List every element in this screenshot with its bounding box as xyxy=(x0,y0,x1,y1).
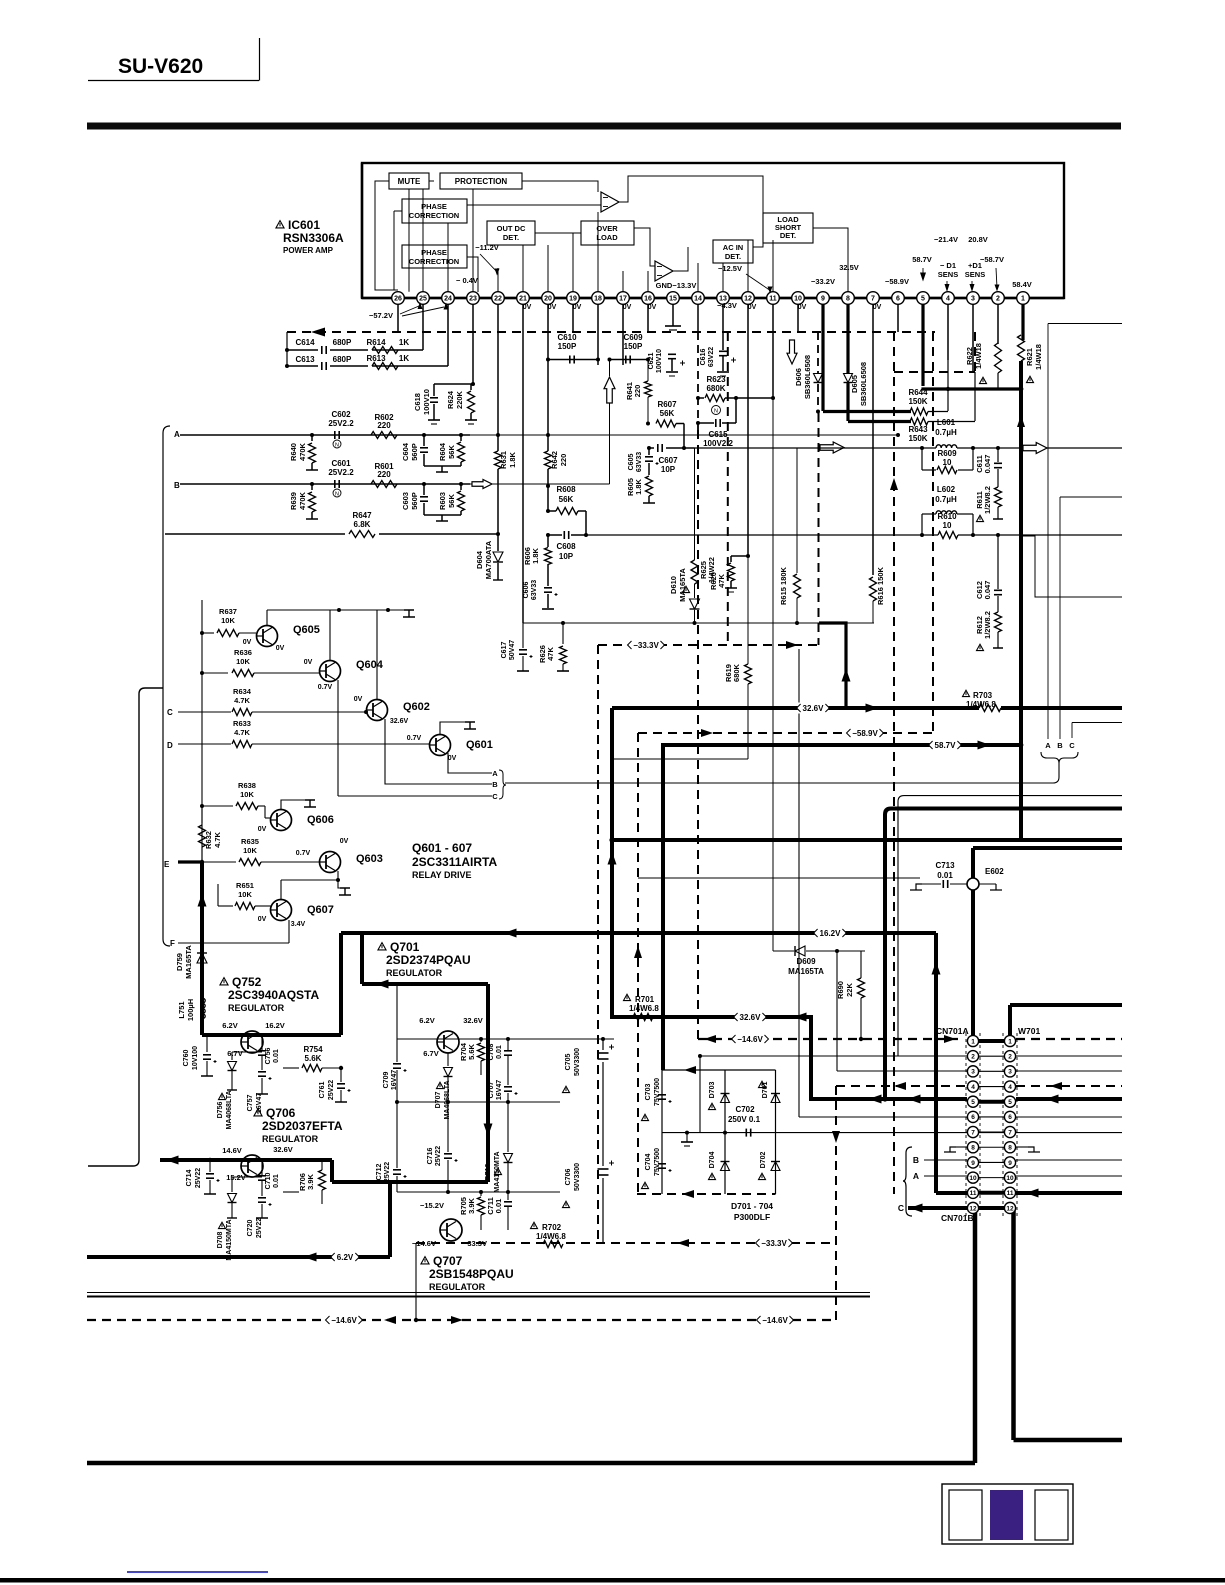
diode D701 xyxy=(771,1094,780,1103)
IC601 pin row xyxy=(362,297,1064,299)
svg-text:4.7K: 4.7K xyxy=(234,728,250,737)
bridge mid rail row7 xyxy=(662,1132,776,1134)
connector CN701A pin 4 xyxy=(967,1081,978,1092)
resistor R702 xyxy=(531,1222,538,1228)
svg-text:560P: 560P xyxy=(410,492,419,510)
wire pin13 drop xyxy=(722,304,724,332)
svg-text:1: 1 xyxy=(1008,1038,1012,1045)
footer bottom bar xyxy=(0,1578,1225,1583)
bridge top rail xyxy=(662,1069,776,1071)
svg-text:75V7500: 75V7500 xyxy=(654,1078,661,1106)
svg-text:R632: R632 xyxy=(204,831,213,849)
svg-text:C606: C606 xyxy=(523,582,530,599)
svg-text:220K: 220K xyxy=(455,390,464,409)
svg-text:C: C xyxy=(167,708,173,717)
svg-text:L601: L601 xyxy=(937,418,956,427)
Q707 drop to -14.6V rail xyxy=(415,1243,417,1320)
svg-text:220: 220 xyxy=(633,385,642,398)
node D row xyxy=(178,743,231,745)
wire step x1035 xyxy=(1021,536,1122,597)
svg-text:8: 8 xyxy=(846,296,850,303)
svg-text:C621: C621 xyxy=(648,353,655,370)
capacitor C716 xyxy=(447,1102,449,1152)
svg-text:1.8K: 1.8K xyxy=(531,547,540,563)
svg-text:D610: D610 xyxy=(669,576,678,594)
connector CN701A pin 12 xyxy=(967,1202,978,1213)
capacitor C617 xyxy=(522,623,524,648)
svg-text:−33.2V: −33.2V xyxy=(811,277,835,286)
svg-text:2SC3940AQSTA: 2SC3940AQSTA xyxy=(228,988,319,1002)
svg-text:1.8K: 1.8K xyxy=(508,451,517,467)
svg-text:1/2W8.2: 1/2W8.2 xyxy=(983,486,992,514)
svg-text:0V: 0V xyxy=(573,304,582,311)
dashed bus y332 xyxy=(287,331,935,333)
svg-text:150K: 150K xyxy=(908,397,927,406)
svg-text:MA4150MTA: MA4150MTA xyxy=(494,1151,501,1192)
thick row5 y1099 xyxy=(811,1097,967,1101)
thick y1182 xyxy=(332,1180,488,1184)
resistor R616 xyxy=(870,577,877,601)
svg-text:B: B xyxy=(1057,741,1063,750)
svg-text:C607: C607 xyxy=(658,456,678,465)
connector CN701A pin 11 xyxy=(967,1187,978,1198)
mid row y1102 xyxy=(397,1101,560,1103)
svg-text:R614: R614 xyxy=(366,338,386,347)
svg-text:1: 1 xyxy=(971,1038,975,1045)
svg-text:C708: C708 xyxy=(488,1044,495,1061)
connector W701 pin 12 xyxy=(1004,1202,1015,1213)
svg-text:1/4W18: 1/4W18 xyxy=(1034,344,1043,370)
svg-text:SENS: SENS xyxy=(938,270,958,279)
IC601 label xyxy=(276,221,284,228)
wire pin25 drop xyxy=(422,304,424,350)
svg-text:22: 22 xyxy=(494,296,502,303)
svg-text:25V22: 25V22 xyxy=(435,1146,442,1166)
connector W701 pin 3 xyxy=(1004,1066,1015,1077)
svg-text:C610: C610 xyxy=(557,333,577,342)
svg-text:56K: 56K xyxy=(447,494,456,508)
dashed -14.6V row1 y1039 xyxy=(698,1038,958,1040)
PROTECTION block xyxy=(440,173,522,189)
svg-text:R633: R633 xyxy=(233,719,251,728)
IC601 pin 2 xyxy=(992,292,1005,305)
voltage flags xyxy=(798,703,829,714)
svg-text:POWER AMP: POWER AMP xyxy=(283,246,334,255)
svg-text:C761: C761 xyxy=(319,1082,326,1099)
svg-text:C716: C716 xyxy=(427,1148,434,1165)
footer colour swatch box xyxy=(942,1484,1073,1544)
IC601 pin 15 xyxy=(667,292,680,305)
thick corner x885 y808 xyxy=(885,809,1122,1098)
thick pin9 drop xyxy=(821,304,824,411)
svg-text:16: 16 xyxy=(644,296,652,303)
svg-text:−12.5V: −12.5V xyxy=(718,264,742,273)
wire pin19 drop xyxy=(572,304,574,332)
svg-text:C707: C707 xyxy=(488,1082,495,1099)
svg-text:C703: C703 xyxy=(645,1084,652,1101)
capacitor C614 xyxy=(287,349,318,351)
svg-text:D701 - 704: D701 - 704 xyxy=(731,1201,773,1211)
svg-text:680P: 680P xyxy=(333,338,352,347)
svg-text:6.7V: 6.7V xyxy=(227,1049,242,1058)
IC601 pin 8 xyxy=(842,292,855,305)
svg-text:MA165TA: MA165TA xyxy=(788,967,824,976)
thick Q706 row y1160 xyxy=(160,1158,332,1162)
svg-text:47K: 47K xyxy=(546,647,555,661)
svg-text:150P: 150P xyxy=(558,342,577,351)
svg-text:B: B xyxy=(174,481,180,490)
transistor Q601 xyxy=(430,735,451,756)
svg-text:680K: 680K xyxy=(706,384,725,393)
header vertical rule xyxy=(259,38,261,81)
resistor R613 xyxy=(372,363,398,370)
wire pin4 to R644 xyxy=(947,360,949,411)
svg-text:R622: R622 xyxy=(965,347,974,365)
resistor R611 xyxy=(995,487,1002,507)
svg-text:E602: E602 xyxy=(985,867,1004,876)
bridge legs xyxy=(661,1070,663,1194)
svg-text:D703: D703 xyxy=(709,1082,716,1099)
svg-text:DET.: DET. xyxy=(725,252,741,261)
svg-text:21: 21 xyxy=(519,296,527,303)
svg-text:220: 220 xyxy=(377,421,391,430)
top separator bar xyxy=(87,123,1121,130)
svg-text:5: 5 xyxy=(971,1099,975,1106)
svg-text:D: D xyxy=(167,741,173,750)
relay outputs A B C xyxy=(448,753,492,773)
resistor R619 xyxy=(747,556,749,664)
svg-text:0V: 0V xyxy=(258,826,267,833)
svg-text:REGULATOR: REGULATOR xyxy=(386,968,443,978)
connector W701 pin 11 xyxy=(1004,1187,1015,1198)
svg-text:E: E xyxy=(164,860,170,869)
svg-text:5.6K: 5.6K xyxy=(305,1054,322,1063)
diode D702 xyxy=(771,1162,780,1171)
wire pin10 drop xyxy=(797,304,799,332)
svg-text:25V2.2: 25V2.2 xyxy=(328,468,354,477)
svg-text:14.6V: 14.6V xyxy=(222,1146,242,1155)
svg-text:32.6V: 32.6V xyxy=(463,1016,483,1025)
svg-text:25V22: 25V22 xyxy=(328,1080,335,1100)
resistor R651 xyxy=(218,905,233,907)
transistor Q605 xyxy=(257,626,278,647)
dashed vertical x933 xyxy=(932,332,934,733)
svg-text:16V47: 16V47 xyxy=(391,1070,398,1090)
thick x202 E-line xyxy=(200,862,204,1035)
right net B horiz xyxy=(1060,496,1122,498)
svg-text:9: 9 xyxy=(971,1160,975,1167)
resistor R622 xyxy=(995,343,1002,373)
capacitor C611 xyxy=(997,448,999,462)
thick 6.2V y1257 xyxy=(87,1255,390,1259)
svg-text:12: 12 xyxy=(969,1205,977,1212)
svg-text:16.2V: 16.2V xyxy=(265,1021,285,1030)
wire pin21 drop xyxy=(522,304,524,623)
capacitor C616 electrolytic xyxy=(722,332,724,350)
connector W701 pin 8 xyxy=(1004,1142,1015,1153)
svg-text:10K: 10K xyxy=(243,846,257,855)
svg-text:C704: C704 xyxy=(645,1154,652,1171)
svg-text:R754: R754 xyxy=(303,1045,323,1054)
Q706 labels xyxy=(254,1109,262,1116)
svg-text:C608: C608 xyxy=(556,542,576,551)
svg-text:10K: 10K xyxy=(240,790,254,799)
svg-text:D759: D759 xyxy=(175,953,184,971)
svg-text:0V: 0V xyxy=(448,755,457,762)
header underline xyxy=(88,80,259,82)
svg-text:Q752: Q752 xyxy=(232,975,262,989)
thick y389 rail xyxy=(921,387,1021,390)
Q707 labels xyxy=(421,1257,429,1264)
double rails y1292.5 y1296.5 xyxy=(87,1292,870,1294)
IC601 pin 25 xyxy=(417,292,430,305)
wire pin6 drop xyxy=(897,304,899,332)
svg-text:D605: D605 xyxy=(850,375,859,393)
svg-text:9: 9 xyxy=(1008,1160,1012,1167)
pin15 ground stub xyxy=(672,304,674,326)
resistor R643 xyxy=(848,420,911,423)
ABC stem to y783 xyxy=(505,763,1059,783)
svg-text:56K: 56K xyxy=(559,495,574,504)
svg-text:0.7µH: 0.7µH xyxy=(935,495,957,504)
resistor R704 xyxy=(480,1039,482,1042)
AC IN DET block xyxy=(713,240,753,263)
ground under R624 xyxy=(465,419,477,421)
resistor R625 xyxy=(694,448,696,560)
svg-text:DET.: DET. xyxy=(503,233,519,242)
wire pin26 drop xyxy=(397,304,399,332)
diode D707 xyxy=(447,1053,449,1066)
svg-text:B: B xyxy=(913,1155,919,1165)
diode D759 xyxy=(197,953,207,963)
svg-text:−4.3V: −4.3V xyxy=(717,301,737,310)
svg-text:REGULATOR: REGULATOR xyxy=(262,1134,319,1144)
resistor R602 xyxy=(371,432,397,439)
svg-text:6.7V: 6.7V xyxy=(423,1049,438,1058)
svg-text:MA165TA: MA165TA xyxy=(678,568,687,602)
svg-text:25V22: 25V22 xyxy=(384,1162,391,1182)
svg-text:C705: C705 xyxy=(565,1054,572,1071)
diode D704 xyxy=(721,1162,730,1171)
svg-text:250V 0.1: 250V 0.1 xyxy=(728,1115,761,1124)
svg-text:C613: C613 xyxy=(295,355,315,364)
svg-text:100V10: 100V10 xyxy=(422,389,431,415)
diode D605 on pin8 drop xyxy=(844,374,853,383)
svg-text:−14.6V: −14.6V xyxy=(331,1316,357,1325)
svg-text:C615: C615 xyxy=(708,430,728,439)
IC601 pin 17 xyxy=(617,292,630,305)
diode D710 xyxy=(507,1102,509,1152)
connector W701 pin 6 xyxy=(1004,1111,1015,1122)
resistor R706 xyxy=(283,1191,299,1193)
resistor R614 xyxy=(372,347,398,354)
connector CN701A pin 2 xyxy=(967,1051,978,1062)
row6 y1117 xyxy=(799,1116,967,1118)
svg-text:10V100: 10V100 xyxy=(192,1046,199,1070)
svg-text:75V7500: 75V7500 xyxy=(654,1148,661,1176)
resistor R705 xyxy=(480,1192,482,1196)
svg-text:C618: C618 xyxy=(413,393,422,411)
ground at bridge xyxy=(685,1131,689,1135)
connector CN701A pin 9 xyxy=(967,1157,978,1168)
resistor R636 xyxy=(202,672,228,674)
svg-text:16V47: 16V47 xyxy=(496,1080,503,1100)
wire pin2 drop xyxy=(997,304,999,344)
resistor R621 on pin1 bus xyxy=(1018,335,1025,361)
capacitor C607 xyxy=(657,444,659,452)
resistor R637 xyxy=(202,632,214,634)
svg-text:C605: C605 xyxy=(628,454,635,471)
capacitor C610 xyxy=(548,359,598,361)
capacitor C720 xyxy=(258,1197,266,1199)
svg-text:220: 220 xyxy=(377,470,391,479)
svg-text:0V: 0V xyxy=(354,696,363,703)
left bracket A-F xyxy=(163,426,170,946)
capacitor C606 electrolytic xyxy=(544,587,552,589)
IC601 pin 16 xyxy=(642,292,655,305)
wire main vertical x202 xyxy=(201,600,203,862)
thick rail x612 xyxy=(610,708,614,1017)
svg-text:6: 6 xyxy=(971,1114,975,1121)
thick branch x846 xyxy=(819,623,846,707)
svg-text:AC IN: AC IN xyxy=(723,243,743,252)
wire pin9 drop xyxy=(822,304,824,332)
svg-text:− 0.4V: − 0.4V xyxy=(456,276,478,285)
connector W701 pin 1 xyxy=(1004,1035,1015,1046)
right net B vertical xyxy=(1059,497,1061,739)
svg-text:CORRECTION: CORRECTION xyxy=(409,257,459,266)
open arrow on row B xyxy=(472,480,492,489)
svg-text:D606: D606 xyxy=(794,368,803,386)
svg-text:0.01: 0.01 xyxy=(496,1045,503,1059)
svg-text:−58.9V: −58.9V xyxy=(885,277,909,286)
svg-text:25V22: 25V22 xyxy=(195,1168,202,1188)
thick x936 xyxy=(934,933,938,1193)
svg-text:SU-V620: SU-V620 xyxy=(118,55,203,78)
connector W701 pin 2 xyxy=(1004,1051,1015,1062)
svg-text:R640: R640 xyxy=(289,443,298,461)
thick x488 xyxy=(486,984,490,1182)
svg-text:0.01: 0.01 xyxy=(494,1199,503,1214)
svg-text:0V: 0V xyxy=(748,304,757,311)
svg-text:C757: C757 xyxy=(247,1095,254,1112)
dashed box sense xyxy=(894,371,975,373)
diode D606 on dashed xyxy=(817,332,819,373)
solid arrow up on pin1 bus xyxy=(1017,415,1025,427)
svg-text:9: 9 xyxy=(821,296,825,303)
capacitor C760 xyxy=(206,1035,208,1052)
wire row A to x898 xyxy=(896,433,900,437)
svg-text:REGULATOR: REGULATOR xyxy=(429,1282,486,1292)
right net C horiz xyxy=(1072,722,1122,724)
svg-text:C756: C756 xyxy=(265,1048,272,1065)
svg-text:0.7V: 0.7V xyxy=(296,850,311,857)
svg-text:2: 2 xyxy=(1008,1054,1012,1061)
transistor Q603 xyxy=(320,852,341,873)
svg-text:D707: D707 xyxy=(435,1092,442,1109)
svg-text:1: 1 xyxy=(1021,296,1025,303)
IC601 pin 7 xyxy=(867,292,880,305)
transistor Q607 xyxy=(271,900,292,921)
svg-text:50V47: 50V47 xyxy=(509,640,516,660)
svg-text:0V: 0V xyxy=(276,645,285,652)
svg-text:−33.3V: −33.3V xyxy=(633,641,659,650)
svg-text:0V: 0V xyxy=(798,304,807,311)
capacitor C612 xyxy=(997,535,999,589)
svg-text:20.8V: 20.8V xyxy=(968,235,988,244)
node C row xyxy=(178,711,231,713)
svg-text:150K: 150K xyxy=(908,434,927,443)
svg-text:10P: 10P xyxy=(559,552,574,561)
svg-text:DET.: DET. xyxy=(780,231,796,240)
svg-text:R635: R635 xyxy=(241,837,259,846)
capacitor C604 xyxy=(422,433,426,437)
svg-text:R624: R624 xyxy=(446,390,455,409)
Q601 collector ground xyxy=(440,722,470,735)
svg-text:0V: 0V xyxy=(340,838,349,845)
PHASE CORRECTION block 1 xyxy=(402,199,467,223)
svg-text:6.8K: 6.8K xyxy=(354,520,371,529)
capacitor C710 xyxy=(261,1160,263,1175)
resistor R615 xyxy=(796,448,798,573)
wire row A right xyxy=(470,434,898,436)
thick pin8 drop with D605 xyxy=(846,304,849,373)
svg-text:MA4150MTA: MA4150MTA xyxy=(226,1219,233,1260)
svg-text:2: 2 xyxy=(996,296,1000,303)
svg-text:5.6K: 5.6K xyxy=(467,1043,476,1059)
dashed x698 xyxy=(697,430,699,1039)
CN701B brace xyxy=(903,1147,912,1216)
resistor R638 xyxy=(202,805,233,807)
svg-text:150P: 150P xyxy=(624,342,643,351)
svg-text:56K: 56K xyxy=(447,445,456,459)
svg-text:2SC3311AIRTA: 2SC3311AIRTA xyxy=(412,855,497,869)
svg-text:23: 23 xyxy=(469,296,477,303)
svg-text:R644: R644 xyxy=(908,388,928,397)
connector CN701A pin 1 xyxy=(967,1035,978,1046)
svg-text:R703: R703 xyxy=(973,691,993,700)
svg-text:A: A xyxy=(1045,741,1051,750)
IC601 pin 20 xyxy=(542,292,555,305)
svg-text:R608: R608 xyxy=(556,485,576,494)
svg-text:R609: R609 xyxy=(937,449,957,458)
svg-text:50V3300: 50V3300 xyxy=(574,1163,581,1191)
thick x341 xyxy=(339,933,343,1035)
svg-text:−58.9V: −58.9V xyxy=(852,729,878,738)
dashed x598 xyxy=(597,645,599,1243)
footer blue underline xyxy=(127,1571,268,1573)
thin y878 xyxy=(638,877,920,879)
svg-text:6: 6 xyxy=(1008,1114,1012,1121)
resistor R641 xyxy=(647,360,649,382)
svg-text:MUTE: MUTE xyxy=(398,177,421,186)
wire pin18 drop xyxy=(597,304,599,365)
resistor R607 xyxy=(656,420,676,427)
svg-text:680P: 680P xyxy=(333,355,352,364)
svg-text:20: 20 xyxy=(544,296,552,303)
svg-text:50V3300: 50V3300 xyxy=(574,1048,581,1076)
svg-text:6: 6 xyxy=(896,296,900,303)
svg-text:Q707: Q707 xyxy=(433,1254,463,1268)
svg-text:C: C xyxy=(898,1203,904,1213)
svg-text:10: 10 xyxy=(943,458,952,467)
transistor Q706 xyxy=(241,1155,263,1177)
svg-text:0.01: 0.01 xyxy=(937,871,953,880)
IC601 pin 4 xyxy=(942,292,955,305)
dashed vertical x727.8 xyxy=(727,332,729,645)
transistor Q752 xyxy=(241,1031,263,1053)
op-amp triangle U-a xyxy=(601,192,619,212)
